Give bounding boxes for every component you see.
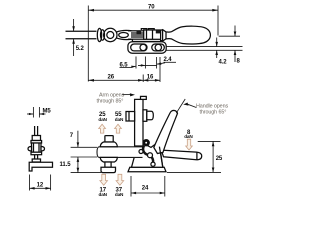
svg-text:daN: daN [98, 117, 107, 122]
svg-text:26: 26 [108, 75, 115, 81]
svg-text:5.2: 5.2 [76, 46, 85, 52]
svg-text:12: 12 [37, 183, 44, 189]
svg-text:M5: M5 [43, 109, 52, 115]
svg-text:70: 70 [148, 4, 155, 10]
svg-text:daN: daN [99, 192, 108, 197]
svg-text:11.5: 11.5 [60, 162, 72, 168]
svg-text:16: 16 [147, 75, 154, 81]
svg-text:daN: daN [184, 134, 193, 139]
svg-text:24: 24 [142, 185, 149, 191]
svg-text:daN: daN [115, 192, 124, 197]
svg-text:daN: daN [115, 117, 124, 122]
svg-text:through 85°: through 85° [97, 98, 124, 104]
svg-text:25: 25 [216, 156, 223, 162]
svg-text:4.2: 4.2 [219, 59, 228, 65]
svg-text:through 65°: through 65° [200, 109, 227, 115]
